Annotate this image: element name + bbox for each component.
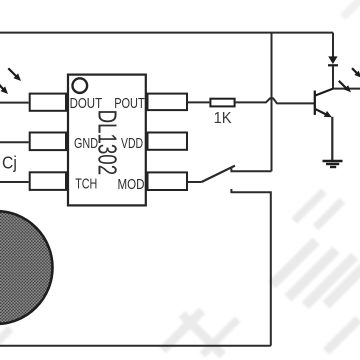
- switch S1 lever: [202, 166, 236, 182]
- svg-text:MOD: MOD: [118, 177, 145, 193]
- transistor Q1 base bar: [314, 91, 316, 115]
- LED D1 triangle: [328, 56, 337, 64]
- wire LED D1 cathode to junction: [332, 66, 334, 88]
- wire switch upper contact to vertical drop: [231, 168, 271, 171]
- svg-text:1K: 1K: [214, 110, 233, 127]
- pin box POUT: [148, 94, 188, 111]
- wire MOD pin to switch pivot: [188, 181, 202, 183]
- pin box MOD: [148, 172, 188, 190]
- pin box TCH: [30, 172, 66, 190]
- wire emitter down to ground: [331, 117, 333, 161]
- wire TCH pin to left edge: [0, 181, 29, 183]
- wire switch lower contact down to bottom rail: [231, 189, 270, 346]
- wire vertical drop from rail to switch upper contact: [271, 33, 273, 172]
- svg-text:VDD: VDD: [121, 136, 143, 152]
- light arrows into IR receiver (left): [0, 68, 21, 94]
- wire POUT pin to resistor R1: [188, 101, 209, 103]
- ground symbol: [323, 161, 343, 167]
- wire bottom ground rail: [0, 345, 271, 347]
- wire resistor R1 to crossover hop over vertical rail: [236, 98, 314, 103]
- resistor R1 1K body: [210, 99, 234, 107]
- pin box GND: [30, 133, 66, 151]
- wire junction to right edge: [333, 88, 360, 90]
- transistor Q1 emitter diagonal with arrow: [316, 109, 332, 117]
- IC U1 body DL1302: [68, 75, 146, 206]
- wire rail corner down to LED D1 anode: [332, 33, 334, 57]
- svg-text:DL1302: DL1302: [93, 110, 123, 176]
- wire top supply rail: [0, 32, 333, 34]
- pin box DOUT: [30, 94, 66, 111]
- light arrows at LED/phototransistor (right): [339, 68, 360, 92]
- pin box VDD: [148, 133, 188, 150]
- transistor Q1 collector diagonal: [316, 89, 333, 96]
- IC U1 pin-1 marker circle: [73, 78, 88, 93]
- touch pad electrode (mesh disc): [0, 211, 53, 324]
- wire GND pin to left edge: [0, 141, 29, 143]
- wire DOUT pin to left edge: [0, 102, 29, 104]
- svg-text:Cj: Cj: [2, 153, 17, 173]
- svg-text:TCH: TCH: [75, 177, 97, 193]
- LED D1 cathode bar: [328, 64, 338, 66]
